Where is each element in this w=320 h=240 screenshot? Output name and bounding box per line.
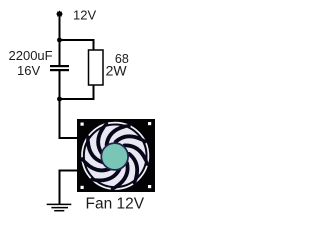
wire fan negative lead to ground bbox=[60, 171, 79, 205]
wire junction A to resistor top bbox=[60, 40, 94, 50]
ground bbox=[47, 204, 72, 210]
wire junction A down to capacitor top plate bbox=[59, 40, 61, 66]
junction B (bottom node dot) bbox=[57, 97, 62, 102]
junction A (top node dot) bbox=[57, 38, 62, 43]
svg-text:12V: 12V bbox=[73, 7, 96, 22]
resistor R1 68 2W (box) bbox=[89, 50, 104, 85]
svg-text:16V: 16V bbox=[17, 63, 40, 78]
wire capacitor bottom plate to junction B bbox=[59, 70, 61, 99]
wire from 12V terminal to junction A bbox=[59, 15, 61, 40]
fan (12V brushless fan image) bbox=[77, 119, 155, 192]
wire resistor bottom to junction B bbox=[60, 85, 94, 99]
svg-text:2200uF: 2200uF bbox=[9, 48, 53, 63]
node 12V supply terminal bbox=[56, 11, 62, 17]
wire junction B to fan positive lead bbox=[60, 99, 79, 138]
svg-text:Fan 12V: Fan 12V bbox=[86, 196, 145, 213]
capacitor C1 2200uF 16V bbox=[50, 65, 69, 71]
svg-text:2W: 2W bbox=[106, 63, 128, 79]
